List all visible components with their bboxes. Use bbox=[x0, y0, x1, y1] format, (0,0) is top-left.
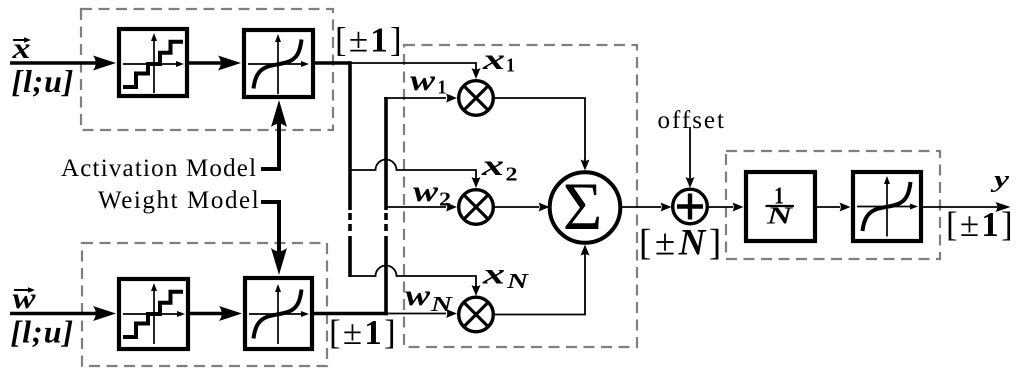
svg-text:[±1]: [±1] bbox=[329, 313, 398, 352]
label: wN bbox=[405, 279, 453, 316]
label: x vector input bbox=[11, 32, 31, 65]
wire: offset arrow into adder bbox=[689, 127, 691, 178]
svg-text:x: x bbox=[482, 258, 505, 291]
wire: M2 output to summer left bbox=[494, 206, 540, 208]
scaling box 1/N bbox=[746, 172, 815, 241]
wire: w input bbox=[10, 312, 96, 316]
label: w2 bbox=[413, 175, 451, 211]
wire: w2 tap bbox=[386, 206, 446, 208]
svg-text:2: 2 bbox=[439, 189, 451, 211]
wire: T2 output to w bus junction bbox=[314, 312, 388, 316]
wire: Q2 to T2 bbox=[190, 312, 223, 316]
offset adder bbox=[673, 189, 708, 224]
svg-text:Σ: Σ bbox=[563, 168, 603, 244]
dashed group box: weight model bbox=[82, 243, 327, 366]
svg-text:x: x bbox=[481, 149, 504, 182]
svg-text:[l;u]: [l;u] bbox=[11, 313, 75, 349]
wire: adder output to 1/N box bbox=[708, 206, 734, 208]
wire: x bus vertical (with break) bbox=[348, 61, 352, 210]
label: x1 bbox=[482, 43, 515, 77]
svg-text:[l;u]: [l;u] bbox=[12, 63, 75, 99]
wire: xN tap with hop over w bus bbox=[350, 266, 476, 288]
svg-text:w: w bbox=[13, 282, 37, 315]
svg-text:2: 2 bbox=[506, 164, 518, 186]
wire: T1 output to x bus bbox=[315, 61, 350, 65]
svg-text:w: w bbox=[410, 64, 436, 97]
dashed group box: multiply-accumulate bbox=[404, 45, 637, 347]
multiplier M1 bbox=[459, 81, 494, 116]
svg-text:x: x bbox=[482, 43, 505, 76]
label: xN bbox=[482, 258, 530, 294]
quantizer box Q1 (activation) bbox=[119, 29, 187, 96]
wire: Q1 to T1 bbox=[189, 61, 222, 65]
svg-text:w: w bbox=[405, 279, 431, 312]
wire: summer output to offset adder bbox=[621, 206, 662, 208]
wire: weight model pointer bbox=[261, 202, 279, 253]
label: w vector input bbox=[13, 282, 37, 315]
svg-text:w: w bbox=[413, 175, 439, 208]
svg-text:Weight Model: Weight Model bbox=[98, 187, 260, 214]
tanh box T3 (output) bbox=[853, 172, 921, 241]
wire: wN tap (continuation of weight wire) bbox=[388, 313, 446, 315]
svg-text:1: 1 bbox=[506, 55, 515, 77]
svg-text:N: N bbox=[506, 269, 530, 293]
summation node bbox=[550, 168, 621, 244]
wire: w bus vertical (with break) bbox=[384, 236, 388, 315]
tanh box T2 (weight) bbox=[245, 278, 312, 349]
svg-text:1: 1 bbox=[438, 77, 447, 99]
dashed group box: output scaling bbox=[726, 151, 940, 259]
svg-text:[±1]: [±1] bbox=[946, 205, 1015, 244]
quantizer box Q2 (weight) bbox=[119, 279, 188, 349]
wire: y output bbox=[923, 206, 997, 208]
svg-text:N: N bbox=[766, 204, 795, 230]
label: w1 bbox=[410, 64, 447, 99]
svg-text:Activation Model: Activation Model bbox=[61, 155, 257, 182]
wire: x2 tap with hop over w bus bbox=[350, 160, 476, 179]
svg-text:N: N bbox=[430, 292, 454, 316]
wire: M1 output to summer top bbox=[494, 98, 586, 161]
svg-text:[±1]: [±1] bbox=[335, 21, 404, 60]
wire: w1 tap from bus top bbox=[384, 97, 446, 99]
dashed group box: activation model bbox=[81, 9, 333, 130]
wire: x input bbox=[10, 61, 96, 65]
svg-text:offset: offset bbox=[658, 107, 726, 134]
tanh box T1 (activation) bbox=[244, 30, 313, 97]
svg-text:[±N]: [±N] bbox=[639, 223, 725, 264]
wire: MN output to summer bottom bbox=[494, 254, 586, 315]
wire: 1/N box to tanh box T3 bbox=[817, 206, 840, 208]
svg-text:x: x bbox=[11, 32, 30, 65]
wire: x1 tap bbox=[350, 63, 476, 71]
label: x2 bbox=[481, 149, 518, 186]
multiplier M2 bbox=[459, 190, 494, 225]
multiplier MN bbox=[459, 297, 494, 332]
wire: activation model pointer bbox=[261, 122, 279, 169]
